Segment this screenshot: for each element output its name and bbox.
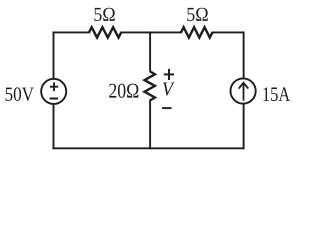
node V minus mark — [162, 107, 171, 109]
resistor R1 zigzag — [89, 27, 121, 37]
wire middle lower — [149, 100, 151, 148]
current source I1 arrow — [239, 83, 249, 101]
wire left lower — [53, 104, 55, 148]
resistor R2 zigzag — [181, 27, 212, 37]
label 15A — [263, 87, 290, 101]
label 5ohm R2 — [187, 8, 207, 21]
label 50V — [6, 87, 34, 101]
wire right lower — [243, 104, 245, 148]
wire top-right segment — [212, 31, 243, 33]
voltage source V1 circle — [41, 79, 66, 104]
voltage source V1 plus sign — [50, 82, 58, 91]
current source I1 circle — [231, 78, 256, 103]
wire top-middle segment — [121, 31, 181, 33]
wire bottom — [54, 147, 244, 149]
node V plus mark — [164, 69, 174, 80]
label 20ohm R3 — [109, 84, 138, 98]
label 5ohm R1 — [94, 8, 114, 21]
voltage source V1 minus sign — [50, 98, 58, 100]
wire top-left segment — [54, 31, 90, 33]
resistor R3 zigzag vertical — [145, 71, 155, 100]
wire middle upper — [149, 32, 151, 71]
node V label — [163, 83, 175, 96]
wire left upper — [53, 32, 55, 78]
wire right upper — [243, 32, 245, 78]
